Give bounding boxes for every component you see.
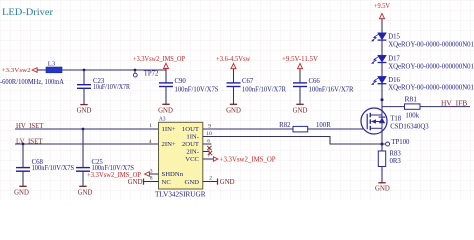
svg-text:TP72: TP72: [144, 70, 159, 77]
svg-text:GND: GND: [185, 179, 200, 186]
LED D17: [371, 55, 474, 70]
ground C67: [226, 104, 241, 114]
wire LV_ISET to pin4: [15, 143, 159, 145]
op-amp A3 body: [159, 122, 203, 189]
svg-text:TLV342SIRUGR: TLV342SIRUGR: [155, 189, 206, 198]
svg-text:D16: D16: [388, 77, 400, 84]
resistor R83: [378, 151, 401, 167]
svg-text:LED-Driver: LED-Driver: [2, 8, 54, 18]
svg-text:+9.5V: +9.5V: [374, 3, 390, 10]
svg-text:R82: R82: [279, 122, 291, 129]
pin 8 stub: [144, 181, 159, 183]
svg-text:8: 8: [150, 176, 153, 182]
svg-text:C66: C66: [309, 78, 321, 85]
svg-text:0R3: 0R3: [390, 158, 402, 165]
svg-text:1: 1: [149, 123, 152, 129]
ground C23: [77, 105, 92, 115]
testpoint TP72: [133, 70, 159, 77]
svg-text:GND: GND: [78, 189, 93, 196]
capacitor C90: [159, 70, 219, 104]
wire HV_ISET to pin1: [15, 128, 159, 130]
svg-text:SHDNn: SHDNn: [162, 171, 184, 178]
pin 7 stub: [203, 158, 214, 160]
wire +9.5V to D15: [381, 19, 383, 33]
inductor L3: [46, 60, 62, 73]
svg-text:T18: T18: [390, 115, 402, 122]
wire pin9 to R82: [203, 128, 293, 130]
ground bar at pin2: [218, 179, 235, 186]
power port +9.5V: [374, 3, 390, 19]
svg-text:100nF/10V/X7S: 100nF/10V/X7S: [32, 165, 75, 172]
svg-text:+3.3Vsw2_IMS_OP: +3.3Vsw2_IMS_OP: [133, 56, 185, 63]
power port +9.5V-11.5V: [282, 56, 318, 69]
ground R83: [375, 183, 390, 193]
capacitor C25: [76, 129, 134, 186]
wire source down: [381, 128, 383, 151]
svg-text:+3.3Vsw2_IMS_OP: +3.3Vsw2_IMS_OP: [220, 156, 276, 163]
svg-text:GND: GND: [375, 186, 390, 193]
svg-text:+3.3Vsw2: +3.3Vsw2: [2, 67, 31, 74]
wire R81 to HV_IFB: [420, 106, 470, 108]
capacitor C23: [77, 70, 130, 104]
svg-text:2IN-: 2IN-: [186, 149, 199, 156]
ground C66: [293, 104, 308, 114]
svg-text:R81: R81: [405, 96, 418, 104]
power port +3.3Vsw2_IMS_OP at pin3: [87, 172, 149, 179]
ground C68: [14, 186, 29, 196]
svg-text:TP100: TP100: [391, 139, 410, 146]
svg-text:GND: GND: [293, 107, 308, 114]
svg-text:100nF/10V/X7R: 100nF/10V/X7R: [242, 87, 286, 94]
svg-text:GND: GND: [220, 179, 235, 186]
svg-text:3: 3: [150, 169, 153, 175]
svg-text:4: 4: [149, 139, 152, 145]
svg-text:XQeROY-00-0000-000000N01: XQeROY-00-0000-000000N01: [388, 41, 474, 48]
svg-text:1IN+: 1IN+: [162, 126, 176, 133]
svg-text:-600R/100MHz, 100mA: -600R/100MHz, 100mA: [0, 79, 64, 86]
svg-text:GND: GND: [226, 107, 241, 114]
svg-text:VCC: VCC: [185, 156, 199, 163]
resistor R81: [405, 96, 421, 120]
wire drain to R81: [382, 106, 405, 108]
power port +3.3Vsw2: [2, 67, 38, 74]
no-ERC cross pin5: [208, 151, 212, 155]
node junction at C23: [83, 69, 86, 72]
svg-text:D15: D15: [388, 34, 400, 41]
ground C90: [158, 104, 173, 114]
pin 3 stub: [149, 173, 158, 175]
node junction TP100: [381, 143, 384, 146]
svg-text:100R: 100R: [316, 122, 331, 129]
svg-text:NC: NC: [162, 179, 172, 186]
pin 6 stub: [203, 143, 212, 145]
svg-text:1OUT: 1OUT: [182, 126, 199, 133]
svg-text:XQeROY-00-0000-000000N01: XQeROY-00-0000-000000N01: [388, 63, 474, 70]
svg-text:+9.5V-11.5V: +9.5V-11.5V: [282, 56, 318, 63]
svg-text:+3.3Vsw2_IMS_OP: +3.3Vsw2_IMS_OP: [87, 172, 141, 179]
resistor R82: [279, 122, 331, 132]
svg-text:2OUT: 2OUT: [182, 141, 199, 148]
LED D16: [371, 76, 474, 91]
wire pin10 step: [203, 137, 382, 145]
svg-text:+3.6-4.5Vsw: +3.6-4.5Vsw: [216, 56, 250, 63]
wire D17 to D16: [381, 63, 383, 77]
testpoint TP100: [382, 139, 410, 146]
LED D15: [371, 33, 474, 49]
svg-text:100nF/10V/X7S: 100nF/10V/X7S: [175, 87, 219, 94]
svg-text:1IN-: 1IN-: [186, 134, 199, 141]
transistor T18: [361, 108, 429, 134]
node junction TP72: [134, 69, 137, 72]
svg-text:L3: L3: [48, 60, 56, 67]
svg-text:D17: D17: [388, 56, 400, 63]
ground C25: [78, 186, 93, 196]
svg-text:7: 7: [208, 153, 211, 159]
pin 5 stub: [203, 151, 210, 153]
capacitor C66: [293, 69, 354, 104]
svg-text:2IN+: 2IN+: [162, 141, 176, 148]
svg-text:6: 6: [207, 139, 210, 145]
svg-text:A3: A3: [159, 115, 166, 122]
wire port to L3: [37, 69, 46, 71]
svg-text:GND: GND: [158, 107, 173, 114]
wire D16 to drain: [381, 84, 383, 115]
svg-text:10uF/10V/X7R: 10uF/10V/X7R: [93, 84, 130, 91]
capacitor C67: [227, 69, 287, 104]
svg-text:CSD16340Q3: CSD16340Q3: [390, 123, 429, 130]
no-ERC cross pin6: [207, 146, 211, 150]
node junction C68: [22, 143, 25, 146]
svg-text:100nF/16V/X7R: 100nF/16V/X7R: [309, 87, 354, 94]
svg-text:HV_IFB: HV_IFB: [441, 100, 468, 108]
svg-text:100k: 100k: [405, 113, 419, 120]
wire L3 to C90 corner: [62, 69, 166, 71]
svg-text:XQeROY-00-0000-000000N01: XQeROY-00-0000-000000N01: [388, 85, 474, 92]
node junction C25: [82, 128, 85, 131]
ground bar at pin8: [128, 179, 144, 186]
wire R83 to ground: [381, 167, 383, 183]
svg-text:R83: R83: [390, 151, 402, 158]
capacitor C68: [16, 144, 74, 186]
power port +3.3Vsw2_IMS_OP at pin7: [213, 156, 275, 163]
svg-text:GND: GND: [14, 189, 29, 196]
wire D15 to D17: [381, 40, 383, 55]
svg-text:9: 9: [208, 123, 211, 129]
svg-text:GND: GND: [77, 107, 92, 114]
svg-text:C67: C67: [242, 78, 254, 85]
node junction drain: [381, 98, 384, 101]
svg-text:GND: GND: [128, 179, 143, 186]
power port +3.3Vsw2_IMS_OP: [133, 56, 185, 70]
svg-text:2: 2: [209, 176, 212, 182]
pin 2 stub: [203, 181, 218, 183]
wire R82 to gate: [308, 128, 364, 130]
power port +3.6-4.5Vsw: [216, 56, 250, 69]
svg-text:C90: C90: [175, 78, 187, 85]
